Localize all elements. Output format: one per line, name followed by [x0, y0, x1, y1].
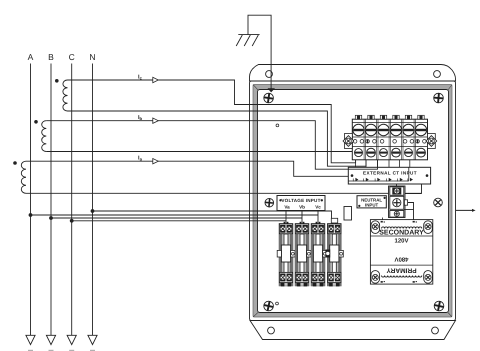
wire phase B tap to Vb fuse F2 [51, 217, 302, 219]
transformer mount screw top-left [371, 221, 380, 234]
CT coil phase C [63, 80, 68, 111]
terminal block middle indicator holes [353, 140, 426, 144]
screw panel bottom-right [434, 301, 444, 311]
svg-text:Vc: Vc [315, 205, 321, 210]
fuse F3 [311, 222, 327, 287]
svg-text:I: I [397, 178, 398, 183]
wires terminal block to CT input plate [356, 160, 410, 168]
svg-text:I: I [407, 178, 408, 183]
CT coil phase B [42, 121, 47, 152]
arrow terminal phase C [67, 335, 76, 344]
svg-text:Vb: Vb [299, 205, 305, 210]
ground symbol [236, 35, 259, 46]
junction dot phase A tap [29, 213, 33, 217]
wire neutral jumper U [404, 203, 414, 220]
wire Vc drop to fuse F3 [317, 211, 319, 224]
terminal block upper screws row [353, 124, 427, 135]
node N label [89, 52, 95, 62]
pinhole upper-left [276, 124, 279, 127]
enclosure inner mounting plate [253, 85, 452, 318]
ground lug at panel screw [268, 88, 276, 92]
label plate EXTERNAL CT INPUT [348, 167, 430, 184]
connector stub between plates [344, 207, 352, 221]
wire neutral strip to transformer [382, 218, 384, 220]
label Ic [138, 75, 143, 81]
terminal block TB1 body [352, 119, 427, 160]
transformer secondary coil [382, 227, 422, 229]
transformer mount screw bottom-left [371, 271, 380, 284]
svg-text:SECONDARY: SECONDARY [379, 230, 424, 237]
polarity dot CT A [13, 161, 17, 165]
label Ia [138, 156, 143, 162]
transformer mount screw top-right [424, 221, 433, 234]
wire Ib top lead [46, 121, 377, 170]
screw panel mid-left [265, 198, 274, 207]
screw panel top-left [264, 93, 274, 103]
junction dot phase C tap [70, 219, 74, 223]
wire Ia top lead [26, 161, 348, 176]
wire phase A tap to Vc fuse F3 [31, 214, 319, 216]
wire ground lead [248, 15, 271, 89]
wire Ic bottom lead [68, 111, 367, 166]
svg-text:INPUT: INPUT [365, 203, 378, 208]
screw panel top-right [434, 93, 444, 103]
terminal block left ear [343, 134, 354, 149]
wire neutral N bus [92, 64, 94, 336]
neutral terminal strip [389, 186, 408, 218]
svg-text:C: C [69, 52, 75, 62]
svg-text:I: I [375, 178, 376, 183]
wire neutral tap to fuse F4 [93, 211, 332, 223]
terminal block right ear [426, 134, 437, 149]
wire Ia bottom lead (drawn under neutral strip) [26, 184, 422, 194]
polarity dot CT C [55, 79, 59, 83]
CT input arrow glyphs [353, 178, 413, 183]
transformer terminal labels X1 X2 [381, 221, 417, 283]
svg-text:120V: 120V [394, 238, 408, 245]
label plate NEUTRAL INPUT [357, 196, 386, 208]
svg-text:480V: 480V [394, 255, 408, 262]
svg-text:A: A [28, 52, 34, 62]
transformer primary coil [382, 276, 422, 278]
wire phase A bus [30, 64, 32, 336]
svg-text:Ic: Ic [138, 75, 143, 81]
svg-text:Ib: Ib [138, 115, 143, 121]
svg-text:Ia: Ia [138, 156, 143, 162]
label Ib [138, 115, 143, 121]
wire Ib bottom lead [46, 151, 352, 153]
arrow terminal phase B [46, 335, 55, 344]
wire Vb drop to fuse F2 [301, 211, 303, 224]
svg-text:VOLTAGE INPUT: VOLTAGE INPUT [281, 198, 320, 203]
enclosure bottom flange [250, 321, 456, 340]
terminal block top tabs [355, 115, 424, 119]
enclosure top flange [250, 65, 456, 82]
svg-text:N: N [89, 52, 95, 62]
svg-text:I: I [363, 178, 364, 183]
node B label [48, 52, 54, 62]
staple connector above fuse F4 [331, 218, 337, 223]
fuse F2 [295, 222, 311, 287]
arrow Ia [153, 159, 159, 164]
wire phase B bus [50, 64, 52, 336]
polarity dot CT B [34, 120, 38, 124]
pinhole lower-left [276, 302, 279, 305]
wire Va drop to fuse F1 [285, 211, 287, 224]
junction dot phase B tap [49, 216, 53, 220]
node C label [69, 52, 75, 62]
node A label [28, 52, 34, 62]
fuse F1 [277, 222, 295, 287]
wire phase C bus [71, 64, 73, 336]
svg-text:Va: Va [284, 205, 290, 210]
arrow terminal phase A [26, 335, 35, 344]
transformer mount screw bottom-right [424, 271, 433, 284]
arrow terminal neutral N [88, 335, 97, 344]
enclosure body [250, 81, 456, 321]
wire CT plate to neutral strip [396, 184, 398, 186]
wire phase C tap to Va fuse F1 [72, 220, 286, 222]
svg-text:B: B [48, 52, 54, 62]
wire Ic top lead [68, 80, 356, 163]
wire inside CT input plate [348, 167, 409, 181]
terminal block lower screws row [355, 148, 426, 157]
svg-text:PRIMARY: PRIMARY [386, 267, 417, 274]
fuse F4 [325, 222, 343, 287]
cropped text marks below arrows [28, 350, 95, 351]
svg-text:I: I [353, 178, 354, 183]
svg-text:I: I [386, 178, 387, 183]
wire external output right side [456, 209, 476, 212]
label plate VOLTAGE INPUT [277, 196, 325, 211]
arrow Ic [153, 77, 159, 82]
arrow Ib [153, 118, 159, 123]
transformer T1 body [370, 220, 432, 285]
screw panel mid-right [433, 197, 444, 208]
junction dot neutral tap [91, 209, 95, 213]
screw panel bottom-left [264, 301, 274, 311]
CT coil phase A [21, 161, 26, 193]
